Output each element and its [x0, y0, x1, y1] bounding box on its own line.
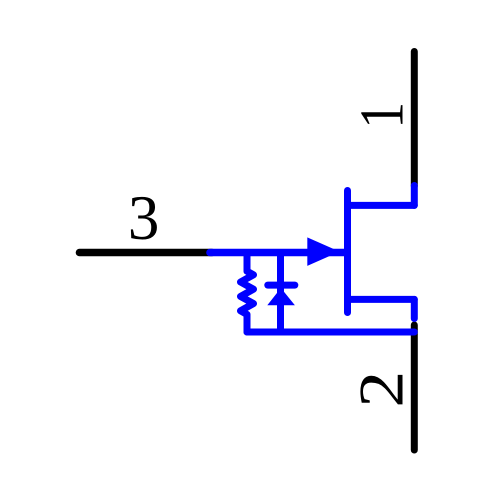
wire: gate horizontal [210, 249, 345, 257]
wire: bottom horizontal (source return) [247, 329, 414, 336]
transistor Q1 channel bar [344, 191, 351, 313]
wire: source lead horizontal [348, 296, 415, 303]
pin 2 lead (black vertical, bottom right) [411, 325, 418, 450]
wire: drain lead horizontal [348, 202, 415, 209]
diode D1 stem (vertical wire through diode) [277, 253, 284, 333]
wire: drain vertical up to pin 1 [411, 186, 418, 206]
resistor R1 (gate-source zigzag) [241, 253, 254, 333]
pin 3 lead (black horizontal, left) [80, 249, 213, 257]
svg-text:3: 3 [128, 183, 160, 253]
wire: source vertical down to pin 2 [411, 299, 418, 318]
transistor Q1 gate arrow [307, 237, 339, 266]
transistor Q1 (blue JFET-style symbol) [210, 186, 414, 333]
svg-text:1: 1 [346, 102, 416, 129]
svg-text:2: 2 [346, 371, 416, 408]
pin 1 lead (black vertical, top right) [411, 52, 418, 187]
diode D1 cathode bar [268, 282, 295, 289]
diode D1 anode triangle [267, 288, 295, 305]
